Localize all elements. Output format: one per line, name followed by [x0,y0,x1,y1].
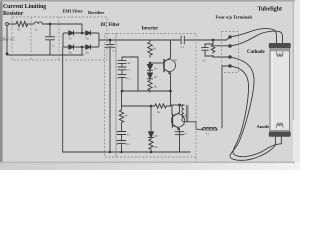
box current limiting + EMI + rectifier [12,17,107,60]
capacitor R2/C upper [118,57,126,67]
transistor Q2 [171,114,184,127]
rectifier bridge outline [63,33,99,47]
wire input left down [6,25,8,52]
capacitor C4 series on rail [181,36,184,44]
wire R1 to L1 [27,23,33,25]
diode D2 [86,31,91,35]
node mid rail right [170,90,172,92]
resistor R7 vertical [119,106,123,131]
svg-text:EMI Filter: EMI Filter [63,9,83,14]
bottom AC rail [7,54,83,56]
wire terminal4 to tube bottom pin [232,66,282,156]
output terminal 4 [229,65,232,68]
svg-text:Four o/p Terminals: Four o/p Terminals [216,14,253,19]
wire DC minus down left side [62,48,64,153]
tube body [270,44,290,135]
box DC filter [105,34,117,158]
transformer T1 core [186,106,188,122]
tube bottom cap [270,130,289,132]
upper RC network bracket [122,57,138,91]
capacitor C2b [118,67,126,74]
diode D6 [147,73,152,79]
filament anode bottom [277,124,284,128]
resistor R6 vertical [149,138,153,151]
tube bottom pins [275,137,281,144]
svg-text:Current Limiting: Current Limiting [3,4,46,10]
node bottom rail joints [109,151,111,153]
DC plus rail [99,39,186,41]
capacitor C6 electrolytic [117,141,126,153]
diode D7 [148,106,153,138]
wire mid to lower section [170,91,172,105]
capacitor C7 [175,132,183,135]
wire terminal3 to tube bottom pin [230,57,275,160]
filament cathode top [277,51,284,55]
node junction at C1 top [49,23,51,25]
diode D3 [69,45,74,49]
transistor Q1 [164,60,176,72]
wire snubber to T3 [213,56,229,58]
node base Q1 [149,62,151,64]
svg-text:DC Filter: DC Filter [101,23,120,28]
wire R8 to Q2 base [166,106,172,114]
svg-text:Cathode: Cathode [247,50,265,55]
wire upper left column to lower [121,91,123,106]
capacitor C2 electrolytic [106,40,115,152]
wire into bridge top mid [81,24,83,33]
node lower base feed [150,105,152,107]
tube light [269,43,291,144]
wire to T4 [222,66,229,128]
output terminal 1 [229,36,232,39]
rail from C4 to terminals [185,38,229,40]
input terminal (live) [6,23,9,26]
lower base feed wire [122,105,155,107]
box inverter [116,34,196,158]
inductor L2 [203,128,217,130]
capacitor C5 [117,132,125,141]
capacitor C1b electrolytic [118,75,126,91]
svg-text:Tubelight: Tubelight [258,6,282,12]
output terminal 3 [229,56,232,59]
wire snubber to T2 [214,45,229,47]
resistor R1 [13,21,28,26]
diode D1 [69,31,74,35]
scanned page background [0,0,300,170]
node DC filter top [109,39,111,41]
wire T1 bottom to L2 [184,122,202,130]
diode D4 [86,45,91,49]
node Q2 collector top [179,104,181,106]
svg-text:Rectifier: Rectifier [88,10,104,15]
wire terminal2 to tube top [232,31,283,46]
resistor R4 vertical [148,79,152,92]
wire terminal1 to tube top [232,29,277,44]
node bridge top mid [81,32,83,34]
wire terminal to R1 [8,23,13,25]
transformer T1 primary winding [182,105,184,122]
resistor R8 horizontal [155,104,166,108]
wire L1 to bridge [42,23,82,25]
inductor L1 [34,22,42,24]
node snubber top [212,39,214,41]
svg-text:Anode: Anode [257,124,270,129]
wire bridge bottom mid to AC rail [81,47,83,55]
svg-text:Resistor: Resistor [3,11,24,17]
wire to Q1 base [150,62,164,64]
capacitor C1 [46,24,55,55]
resistor R3 vertical [148,40,153,57]
output terminal 2 [229,45,232,48]
dashed section boxes [12,17,239,162]
mid rail [122,90,171,92]
svg-text:230V AC: 230V AC [1,38,16,42]
box four o/p terminals [222,32,239,73]
snubber network C8 across [202,40,215,57]
section labels [3,4,282,129]
node bridge bottom mid [81,46,83,48]
diode D5 [147,65,152,71]
wire collector node to transformer [171,104,185,106]
input terminal (neutral) [6,53,9,56]
tube top cap [269,43,291,48]
svg-text:Inverter: Inverter [142,26,159,31]
bottom DC rail [63,151,190,153]
node mid rail left [121,90,123,92]
small value labels [1,28,210,150]
